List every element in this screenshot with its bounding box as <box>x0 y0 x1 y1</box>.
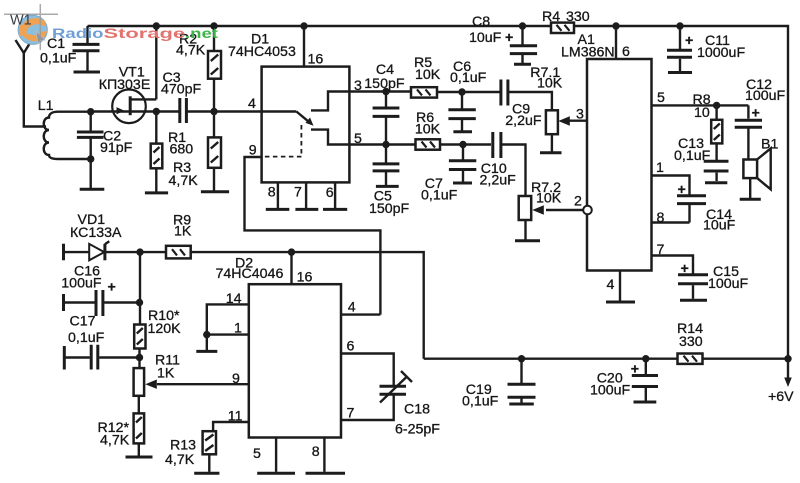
svg-text:9: 9 <box>249 143 257 159</box>
svg-text:120K: 120K <box>148 321 182 337</box>
svg-text:КС133А: КС133А <box>70 225 122 241</box>
svg-text:10K: 10K <box>536 191 562 207</box>
svg-text:2,2uF: 2,2uF <box>505 113 542 129</box>
svg-text:4: 4 <box>607 277 615 293</box>
svg-text:6-25pF: 6-25pF <box>395 422 440 438</box>
svg-text:150pF: 150pF <box>364 76 405 92</box>
svg-text:10: 10 <box>694 105 710 121</box>
svg-text:10uF: 10uF <box>469 30 502 46</box>
svg-text:0,1uF: 0,1uF <box>450 70 487 86</box>
svg-text:Radio: Radio <box>52 26 104 42</box>
svg-text:4: 4 <box>248 96 256 112</box>
svg-text:.net: .net <box>185 26 218 42</box>
svg-text:4,7K: 4,7K <box>169 173 199 189</box>
svg-text:7: 7 <box>657 242 665 258</box>
svg-text:4: 4 <box>348 300 356 316</box>
svg-text:8: 8 <box>657 210 665 226</box>
svg-text:W1: W1 <box>10 13 32 29</box>
svg-text:6: 6 <box>347 339 355 355</box>
svg-text:150pF: 150pF <box>369 201 410 217</box>
svg-text:4,7K: 4,7K <box>176 43 206 59</box>
svg-text:14: 14 <box>226 291 242 307</box>
svg-text:R4: R4 <box>542 9 560 25</box>
svg-text:Storage: Storage <box>104 26 186 42</box>
svg-text:6: 6 <box>622 44 630 60</box>
svg-text:100uF: 100uF <box>745 88 786 104</box>
svg-text:2,2uF: 2,2uF <box>480 173 517 189</box>
svg-text:1000uF: 1000uF <box>697 45 745 61</box>
svg-text:C8: C8 <box>472 14 490 30</box>
svg-text:C17: C17 <box>70 314 96 330</box>
svg-text:+: + <box>678 182 686 198</box>
svg-text:3: 3 <box>576 107 584 123</box>
svg-text:0,1uF: 0,1uF <box>462 394 499 410</box>
svg-text:8: 8 <box>312 444 320 460</box>
svg-text:3: 3 <box>354 78 362 94</box>
svg-text:10K: 10K <box>415 121 441 137</box>
svg-text:10K: 10K <box>537 76 563 92</box>
svg-text:330: 330 <box>679 334 703 350</box>
svg-text:74HC4046: 74HC4046 <box>216 266 284 282</box>
svg-text:16: 16 <box>308 52 324 68</box>
svg-text:100uF: 100uF <box>590 383 631 399</box>
svg-text:1K: 1K <box>174 224 192 240</box>
svg-text:+: + <box>631 362 639 378</box>
svg-text:0,1uF: 0,1uF <box>40 51 77 67</box>
svg-text:2: 2 <box>574 194 582 210</box>
svg-text:L1: L1 <box>38 98 54 114</box>
svg-text:7: 7 <box>347 406 355 422</box>
svg-text:+: + <box>681 261 689 277</box>
svg-text:16: 16 <box>297 270 313 286</box>
svg-text:100uF: 100uF <box>708 276 749 292</box>
svg-text:1: 1 <box>234 321 242 337</box>
svg-text:КП303Е: КП303Е <box>99 77 151 93</box>
svg-text:10uF: 10uF <box>703 218 736 234</box>
svg-text:330: 330 <box>566 9 590 25</box>
svg-text:680: 680 <box>170 142 194 158</box>
svg-text:74HC4053: 74HC4053 <box>228 44 296 60</box>
svg-text:8: 8 <box>268 184 276 200</box>
svg-text:0,1uF: 0,1uF <box>674 148 711 164</box>
svg-text:100uF: 100uF <box>61 276 102 292</box>
svg-text:0,1uF: 0,1uF <box>421 188 458 204</box>
svg-text:9: 9 <box>232 371 240 387</box>
svg-text:7: 7 <box>294 184 302 200</box>
svg-text:91pF: 91pF <box>100 140 133 156</box>
svg-text:+: + <box>685 33 693 49</box>
svg-text:LM386N: LM386N <box>561 44 615 60</box>
svg-text:B1: B1 <box>761 137 778 153</box>
svg-text:+: + <box>505 30 513 46</box>
svg-text:0,1uF: 0,1uF <box>68 330 105 346</box>
svg-text:+6V: +6V <box>768 389 794 405</box>
svg-text:5: 5 <box>253 446 261 462</box>
svg-text:4,7K: 4,7K <box>100 433 130 449</box>
svg-text:10K: 10K <box>415 67 441 83</box>
svg-text:1: 1 <box>656 160 664 176</box>
svg-text:5: 5 <box>657 90 665 106</box>
svg-text:11: 11 <box>228 409 243 425</box>
svg-text:+: + <box>108 280 116 296</box>
svg-text:C18: C18 <box>404 402 430 418</box>
svg-text:470pF: 470pF <box>161 82 202 98</box>
svg-text:1K: 1K <box>157 366 175 382</box>
svg-text:+: + <box>752 106 760 122</box>
svg-text:4,7K: 4,7K <box>165 452 195 468</box>
svg-text:6: 6 <box>326 185 334 201</box>
svg-text:5: 5 <box>354 131 362 147</box>
